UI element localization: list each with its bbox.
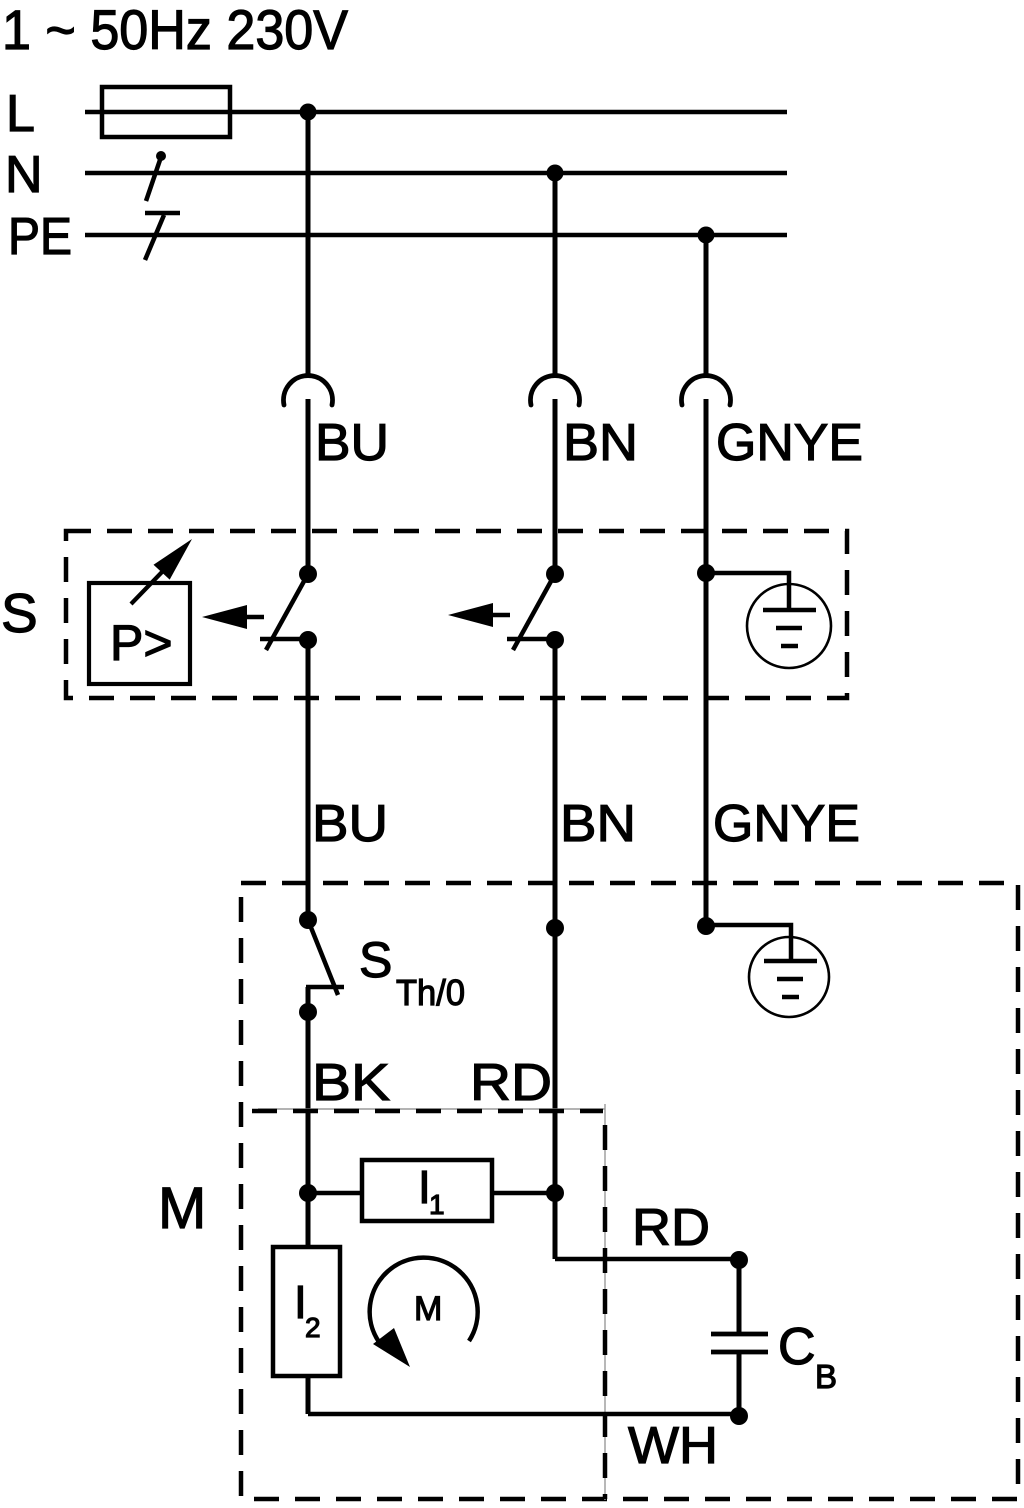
wire BN plug pin to switch [553,399,558,574]
wire PE bus [85,233,787,238]
svg-text:2: 2 [305,1312,321,1343]
wire GNYE plug pin through box [704,399,709,926]
wire to earth 2 [706,925,791,963]
capacitor CB [711,1260,768,1416]
connector socket GNYE [682,376,731,405]
wire BU into winding box [306,987,311,1193]
junction on L [300,104,317,121]
svg-text:BN: BN [563,414,638,472]
winding box hairlines [258,1108,605,1110]
svg-text:1 ~ 50Hz 230V: 1 ~ 50Hz 230V [2,0,349,61]
wire RD to capacitor [555,1257,739,1262]
wire N bus [85,171,787,176]
wire I1 right [492,1191,555,1196]
svg-text:GNYE: GNYE [713,795,860,853]
wire to earth 1 [706,573,789,612]
svg-text:BK: BK [312,1054,390,1112]
wire BU plug pin to switch [306,399,311,574]
svg-text:M: M [414,1290,442,1328]
N conductor slash mark [146,151,166,201]
svg-text:S: S [1,582,38,644]
wire BU drop mid [306,640,311,920]
svg-text:RD: RD [632,1199,710,1257]
connector socket BN [531,376,580,405]
adjustment arrow on P> [131,539,192,604]
wire GNYE drop upper [704,235,709,375]
pressure switch P> box [89,583,190,684]
thermal switch STh/0 [299,920,344,1021]
winding I2 box [273,1247,340,1376]
wire BU drop upper [306,112,311,375]
wire I1 left [308,1191,362,1196]
junction on N [547,165,564,182]
junction right of I1 [546,1184,564,1202]
fuse F1 [102,87,230,137]
svg-text:N: N [5,146,43,204]
junction GNYE in S [697,564,715,582]
wire BN drop mid [553,640,558,1259]
winding I1 box [362,1160,492,1221]
junction on PE [698,227,715,244]
wire I2 to bottom [306,1376,311,1414]
switch contact S1 (BU) [260,565,317,650]
enclosure M dashed box [241,883,1018,1499]
wire L bus [85,110,787,115]
switch contact S2 (BN) [507,565,564,650]
actuation arrow to P> [202,605,264,629]
svg-text:M: M [158,1176,206,1241]
PE conductor slash mark [145,213,180,260]
svg-text:RD: RD [470,1054,552,1112]
junction BN at motor [546,919,564,937]
svg-text:PE: PE [8,208,72,266]
junction capacitor bottom [730,1407,748,1425]
junction left of I1 [299,1184,317,1202]
svg-text:Th/0: Th/0 [396,972,465,1013]
svg-text:BU: BU [315,414,389,472]
rotor rotation arc M [370,1258,478,1367]
connector socket BU [284,376,333,405]
junction BU at motor [299,911,317,929]
wire WH bottom [308,1412,739,1417]
actuation arrow 2 [448,603,510,627]
earth symbol 1 [747,584,831,668]
svg-text:L: L [6,85,35,143]
wire BN drop upper [553,173,558,375]
svg-text:P>: P> [110,615,173,671]
junction GNYE at motor [697,917,715,935]
svg-text:GNYE: GNYE [716,414,863,472]
winding box dashed top [252,1109,603,1114]
enclosure S dashed box [66,531,847,698]
svg-text:1: 1 [429,1189,445,1220]
svg-text:S: S [359,932,392,988]
svg-text:C: C [778,1318,816,1376]
svg-text:BU: BU [312,795,388,853]
svg-text:WH: WH [628,1417,718,1475]
svg-text:B: B [815,1358,837,1395]
junction capacitor top [730,1251,748,1269]
wire to I2 [306,1193,311,1247]
winding box dashed right [603,1113,608,1499]
svg-text:BN: BN [560,795,636,853]
earth symbol 2 [749,937,829,1017]
